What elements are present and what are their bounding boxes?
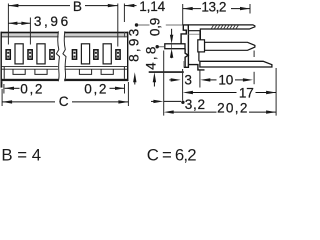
- svg-text:17: 17: [239, 85, 254, 100]
- svg-text:3,96: 3,96: [34, 14, 71, 29]
- svg-text:20,2: 20,2: [217, 101, 249, 116]
- svg-text:3: 3: [184, 72, 191, 87]
- svg-text:10: 10: [218, 72, 233, 87]
- svg-text:0,2: 0,2: [20, 82, 44, 97]
- svg-text:B: B: [73, 0, 82, 14]
- svg-text:C = 6,2: C = 6,2: [147, 145, 196, 164]
- svg-text:4,8: 4,8: [144, 44, 159, 70]
- svg-text:13,2: 13,2: [201, 0, 226, 15]
- svg-text:3,2: 3,2: [185, 97, 206, 112]
- svg-text:8,93: 8,93: [126, 27, 141, 62]
- svg-text:0,9: 0,9: [148, 18, 163, 36]
- svg-text:C: C: [59, 94, 69, 109]
- svg-text:0,2: 0,2: [84, 82, 108, 97]
- svg-text:1,14: 1,14: [139, 0, 165, 14]
- svg-text:B = 4: B = 4: [1, 145, 41, 164]
